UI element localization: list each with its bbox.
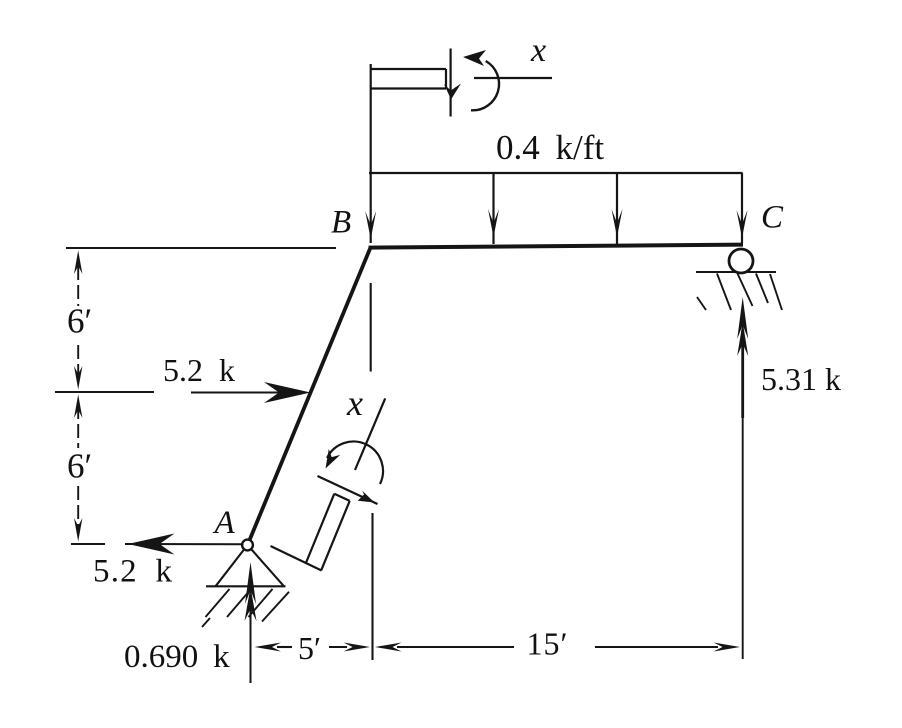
roller support at C: hatch 3 (738, 274, 753, 307)
5' dimension: right arrow (329, 646, 347, 648)
load arrow 3 head (612, 209, 623, 237)
svg-text:5.2 k: 5.2 k (163, 352, 235, 388)
pin support at A: hatch 2 (227, 589, 251, 617)
top horizontal reference line at B level (66, 247, 336, 249)
pin circle at A (242, 540, 253, 551)
member BC (beam) (369, 245, 744, 248)
reaction 5.31 k shaft at C (741, 330, 744, 418)
svg-text:C: C (761, 200, 784, 236)
pin support at A: triangle left leg (216, 550, 245, 587)
section cut at B: cut line (450, 49, 452, 117)
pin support at A: base line (206, 585, 286, 587)
left dimension vertical line (dashed) (77, 266, 79, 306)
svg-text:5.2 k: 5.2 k (93, 554, 173, 590)
pin support at A: hatch 4 (262, 592, 289, 622)
5' dimension: left arrow (255, 643, 282, 652)
svg-text:0.4 k/ft: 0.4 k/ft (496, 128, 604, 167)
load arrow 1 head (365, 211, 376, 239)
distributed load top line (369, 172, 743, 174)
load arrow 1 shaft (at B, also section base line from stub) (370, 64, 372, 243)
pin support at A: hatch 5 short (202, 618, 210, 627)
6' dim arrow up (below middle line) (74, 395, 82, 419)
section cut on AB: x axis line (355, 398, 385, 470)
section cut at B: moment arc arrowhead (463, 50, 486, 66)
section cut at B: stub rectangle top edge (371, 68, 446, 70)
section cut on AB: cut line (318, 476, 378, 504)
section cut on AB: shear arrowhead on cut line (358, 491, 375, 503)
bottom-left tick of 5.2k at A line (71, 543, 105, 545)
reaction 5.31 k second chevron (737, 322, 748, 356)
pin support at A: triangle right leg (252, 550, 285, 587)
load arrow 2 shaft (492, 173, 494, 244)
reaction 0.690 k shaft (250, 596, 252, 683)
load arrow 2 head (488, 209, 499, 237)
reaction 5.31 k arrowhead (737, 297, 748, 339)
section cut at B: stub rectangle bottom edge (371, 87, 446, 89)
section cut at B: moment arc (471, 61, 499, 110)
roller circle at C (729, 249, 753, 273)
section cut on AB: stub rectangle top edge (334, 494, 349, 501)
svg-text:6′: 6′ (67, 302, 92, 341)
section cut on AB: moment arc arrowhead (326, 449, 341, 469)
roller support at C: ground line (696, 271, 776, 273)
vertical reference line below B (lower segment to dimension line) (371, 513, 373, 660)
svg-text:A: A (213, 505, 236, 541)
6' dim arrow down (above middle line) (74, 366, 82, 390)
section cut on AB: stub rectangle right side (321, 501, 350, 570)
section cut on AB: moment arc (327, 442, 383, 484)
15' dimension: right arrow (595, 646, 718, 648)
force 5.2 k at mid-height: line (191, 392, 306, 394)
svg-text:15′: 15′ (527, 626, 569, 662)
force 5.2 k at A: arrowhead (128, 534, 175, 555)
vertical reference line below B (upper segment) (370, 283, 372, 372)
force 5.2 k at A: line (125, 543, 244, 545)
svg-text:x: x (530, 32, 546, 69)
6' dim arrow up (top) (74, 251, 82, 275)
roller support at C: hatch 5 (770, 274, 782, 310)
svg-text:x: x (346, 383, 363, 423)
section cut on AB: stub base line (271, 546, 322, 571)
section cut at B: stub rectangle right edge (445, 69, 447, 89)
load arrow 3 shaft (616, 173, 618, 244)
section cut on AB: stub rectangle left side (306, 494, 334, 563)
roller support at C: hatch 1 short (697, 297, 706, 310)
svg-text:B: B (331, 205, 351, 241)
svg-text:6′: 6′ (67, 447, 92, 486)
15' dimension: left arrow (375, 643, 402, 652)
pin support at A: hatch 1 (206, 589, 230, 617)
svg-text:5′: 5′ (298, 630, 321, 666)
reaction 0.690 k arrowhead (245, 562, 256, 604)
reaction 0.690 k second chevron (245, 587, 257, 621)
force 5.2 k at mid-height: arrowhead (264, 382, 311, 403)
section cut at B: shear arrowhead on cut line (444, 84, 461, 100)
pin support at A: hatch 3 (249, 589, 273, 617)
roller support at C: hatch 4 (756, 274, 768, 304)
load arrow 4 shaft (at C) (741, 173, 743, 243)
load arrow 4 head (737, 210, 748, 238)
svg-text:0.690 k: 0.690 k (124, 639, 230, 675)
svg-text:5.31 k: 5.31 k (761, 361, 841, 397)
section cut at B: x axis line (474, 77, 552, 79)
roller support at C: hatch 2 (717, 274, 731, 311)
middle horizontal reference line (5.2k level) (55, 391, 154, 393)
member AB (column) (248, 248, 371, 546)
6' dim arrow down (bottom) (74, 518, 82, 542)
